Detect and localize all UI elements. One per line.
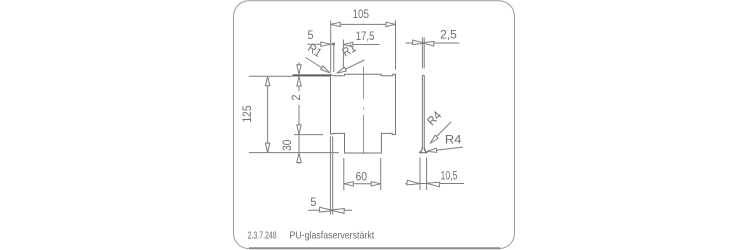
dimension 17,5 bbox=[343, 29, 379, 70]
svg-text:R4: R4 bbox=[424, 108, 444, 128]
dimension 5 top bbox=[307, 28, 335, 72]
frame rounded border bbox=[234, 1, 515, 249]
side view strip foot bbox=[420, 148, 427, 153]
dimension 5 bottom bbox=[308, 137, 352, 215]
radius label R1 right bbox=[336, 40, 365, 75]
dimension 2 bbox=[289, 62, 303, 100]
svg-text:2: 2 bbox=[289, 94, 303, 100]
radius label R1 left bbox=[305, 41, 331, 75]
svg-text:10,5: 10,5 bbox=[441, 169, 458, 183]
dimension 10,5 bbox=[406, 158, 465, 191]
title material text bbox=[289, 230, 374, 242]
dimension 30 bbox=[280, 105, 323, 164]
center line bbox=[363, 67, 365, 155]
svg-text:2,5: 2,5 bbox=[440, 27, 457, 41]
profile outline bbox=[331, 74, 396, 153]
dimension 105 bbox=[331, 7, 396, 72]
svg-text:5: 5 bbox=[310, 195, 316, 209]
svg-text:2.3.7.248: 2.3.7.248 bbox=[248, 230, 277, 242]
svg-text:PU-glasfaserverstärkt: PU-glasfaserverstärkt bbox=[289, 230, 374, 242]
svg-text:125: 125 bbox=[240, 105, 254, 122]
svg-text:60: 60 bbox=[356, 169, 368, 183]
dimension 2,5 bbox=[406, 27, 460, 68]
dimension 60 bbox=[344, 158, 381, 190]
dimension 125 bbox=[240, 76, 339, 152]
radius label R4 rotated bbox=[424, 108, 451, 145]
title part number bbox=[248, 230, 277, 242]
svg-text:105: 105 bbox=[353, 7, 370, 21]
flange thin wall (2mm cut, thick line) bbox=[293, 74, 331, 76]
svg-text:R4: R4 bbox=[445, 133, 462, 147]
svg-text:30: 30 bbox=[280, 139, 294, 151]
radius label R4 horizontal bbox=[427, 133, 463, 154]
svg-text:R1: R1 bbox=[340, 40, 359, 59]
side view strip bbox=[422, 75, 424, 148]
svg-text:17,5: 17,5 bbox=[356, 29, 375, 43]
